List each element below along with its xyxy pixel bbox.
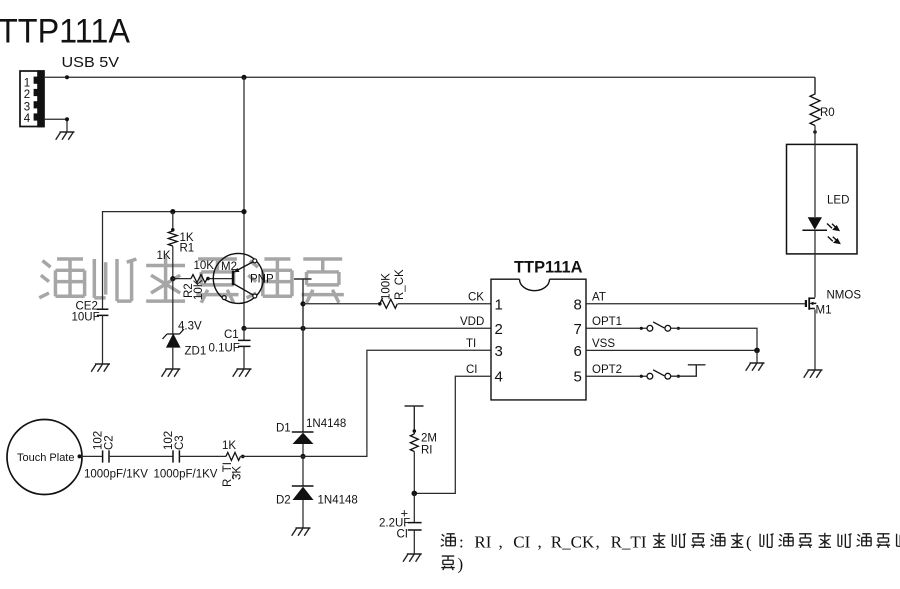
junction TI node [300,454,305,459]
svg-text:2M: 2M [421,433,437,445]
svg-text:AT: AT [592,292,606,304]
wire VDD [244,327,491,329]
wire TI from pin3 [303,350,491,456]
diode D1 1N4148 [292,432,314,444]
junction on 5V rail [241,75,246,80]
junction VDD node [241,326,246,331]
svg-text:USB 5V: USB 5V [62,54,120,71]
resistor R1 [168,231,177,246]
junction CK/x303 [300,301,305,306]
node column x303 with T-bar terminal [294,279,312,432]
pin dot R1 top [171,228,175,232]
wire LED to M1 drain [814,230,816,297]
wire CK from node to R_CK [303,303,380,305]
svg-text::: : [459,533,464,552]
svg-text:VDD: VDD [460,316,484,328]
LED arrow 2 [828,237,840,244]
svg-text:M2: M2 [221,261,237,273]
ground D2 [292,528,311,536]
svg-text:0.1UF: 0.1UF [209,343,240,355]
svg-text:ZD1: ZD1 [185,346,207,358]
svg-text:6: 6 [574,343,582,360]
wire CI from pin4 [414,376,491,493]
resistor R2 [191,275,208,283]
wire CE2 to ground [102,315,104,364]
wire R_TI to TI node [241,455,304,457]
wire R0 to LED box [814,126,816,145]
wire node to D2 [302,456,304,486]
svg-text:OPT1: OPT1 [592,316,622,328]
pin dot R0 bottom [813,130,817,134]
ground C1 [233,369,252,377]
svg-text:3K: 3K [232,466,244,480]
svg-text:TI: TI [466,338,476,350]
svg-text:3: 3 [24,102,30,114]
svg-text:TTP111A: TTP111A [514,258,583,276]
svg-text:7: 7 [574,321,582,338]
svg-text:): ) [458,555,464,574]
junction pin4 [65,117,69,121]
svg-text:TTP111A: TTP111A [0,13,130,51]
wire OPT2 from pin5 [586,375,647,377]
touch plate [7,420,82,495]
svg-text:RI: RI [421,445,433,457]
pin dot RI top [413,429,417,433]
svg-text:CI: CI [397,529,409,541]
ground USB [56,132,75,140]
wire left rail to CE2 [103,212,245,310]
wire M1 source to ground [814,310,816,371]
svg-text:CI: CI [466,364,478,376]
wire OPT2 switch to T-bar terminal [671,365,706,376]
svg-text:2: 2 [495,321,503,338]
svg-text:NMOS: NMOS [827,290,862,302]
svg-text:100K: 100K [381,273,393,300]
svg-text:R_CK: R_CK [551,533,595,552]
svg-text:D2: D2 [276,495,291,507]
wire ZD1 to ground [172,347,174,369]
svg-text:1N4148: 1N4148 [318,495,358,507]
svg-text:4.3V: 4.3V [178,321,202,333]
resistor RI [410,434,418,452]
svg-text:10K: 10K [194,260,215,272]
pin dot R2 right [206,277,210,281]
svg-text:(: ( [746,533,752,552]
svg-text:R_TI: R_TI [611,533,647,552]
wire rail to R1 [172,212,174,231]
note text line 1 [441,533,900,548]
wire C3 to R_TI [179,455,226,457]
svg-text:3: 3 [495,343,503,360]
svg-text:,: , [499,533,503,552]
resistor R_CK [380,299,398,308]
svg-text:1000pF/1KV: 1000pF/1KV [154,469,218,481]
svg-text:10UF: 10UF [72,312,100,324]
wire riser x244 from 5V rail down through M2 to VDD node [243,77,245,328]
wire D2 to ground [302,500,304,528]
wire OPT1 from pin7 [586,327,647,329]
svg-text:,: , [596,533,600,552]
junction rail/riser [241,209,246,214]
capacitor C3 [173,450,179,462]
wire into LED [814,144,816,217]
svg-text:1: 1 [24,78,30,90]
LED box [787,144,858,254]
LED arrow 1 [827,224,839,231]
capacitor C2 [103,450,109,462]
svg-text:OPT2: OPT2 [592,364,622,376]
svg-text:10K: 10K [193,279,205,300]
IC U1 TTP111A [491,279,586,400]
svg-text:R1: R1 [180,243,195,255]
zener ZD1 [163,329,185,347]
wire VSS to ground [756,350,758,363]
svg-text:CK: CK [468,292,484,304]
pin dot touch [78,454,82,458]
wire touch to C2 [81,455,103,457]
switch OPT2 [640,370,680,379]
transistor M2 PNP [213,253,263,303]
svg-text:4: 4 [495,369,503,386]
svg-text:R_CK: R_CK [394,269,406,300]
wire R1 to base node [172,246,174,279]
svg-text:C2: C2 [104,435,116,450]
capacitor C1 [243,328,245,340]
svg-text:CI: CI [513,533,530,552]
wire AT from pin8 to M1 gate [586,303,805,305]
wire OPT1 switch to VSS junction [671,328,757,350]
svg-text:PNP: PNP [250,274,274,286]
svg-text:1000pF/1KV: 1000pF/1KV [84,469,148,481]
diode D2 1N4148 [292,486,314,500]
svg-text:RI: RI [474,533,491,552]
connector USB header [20,70,44,127]
wire CI to ground [413,530,415,554]
wire C1 to ground [243,346,245,369]
svg-text:1K: 1K [222,440,236,452]
svg-text:5: 5 [574,369,582,386]
svg-text:8: 8 [574,296,582,313]
svg-text:C1: C1 [224,329,239,341]
wire C2 to C3 [109,455,173,457]
junction VSS [754,348,760,354]
svg-text:2: 2 [24,89,30,101]
resistor R0 [810,77,820,125]
wire RI to CI node [413,452,415,494]
wire VSS from pin6 [586,349,757,351]
junction VDD/x303 [300,326,305,331]
ground CE2 [91,364,110,372]
wire USB pin4 to ground [44,119,67,132]
svg-text:R0: R0 [820,107,835,119]
resistor R_TI [226,452,241,460]
note text line 2 [441,556,455,570]
wire R2 to M2 base [208,278,233,280]
ground ZD1 [162,369,181,377]
svg-text:D1: D1 [276,423,291,435]
wire R1 node to ZD1 [172,279,174,334]
transistor M1 NMOS [806,297,816,309]
svg-text:1: 1 [495,296,503,313]
ground M1 [804,370,823,378]
wire node to R2 [173,278,191,280]
svg-text:C3: C3 [174,435,186,450]
junction base node [170,276,175,281]
pin dot R_CK left [378,302,382,306]
junction CI node [412,491,418,497]
svg-text:M1: M1 [816,305,832,317]
junction pin1 [65,75,69,79]
capacitor CE2 [97,309,109,315]
svg-text:1K: 1K [157,250,171,262]
svg-text:VSS: VSS [592,338,615,350]
ground VSS [746,363,765,371]
svg-text:1N4148: 1N4148 [306,418,346,430]
junction rail/R1 [170,209,175,214]
wire D1 to TI node [302,444,304,456]
watermark 深圳旭显科技 [39,256,344,303]
svg-text:4: 4 [24,113,31,125]
svg-text:LED: LED [827,195,849,207]
switch OPT1 [640,322,680,331]
pin dot R_TI right [241,455,245,459]
svg-text:,: , [538,533,542,552]
LED diode symbol [808,217,822,230]
capacitor CI [413,493,415,522]
node RI column with T-bar terminal [405,406,424,434]
svg-text:Touch Plate: Touch Plate [17,452,74,464]
ground CI [403,554,422,562]
wire R_CK to pin1 [398,303,491,305]
wire USB 5V rail [44,76,815,78]
